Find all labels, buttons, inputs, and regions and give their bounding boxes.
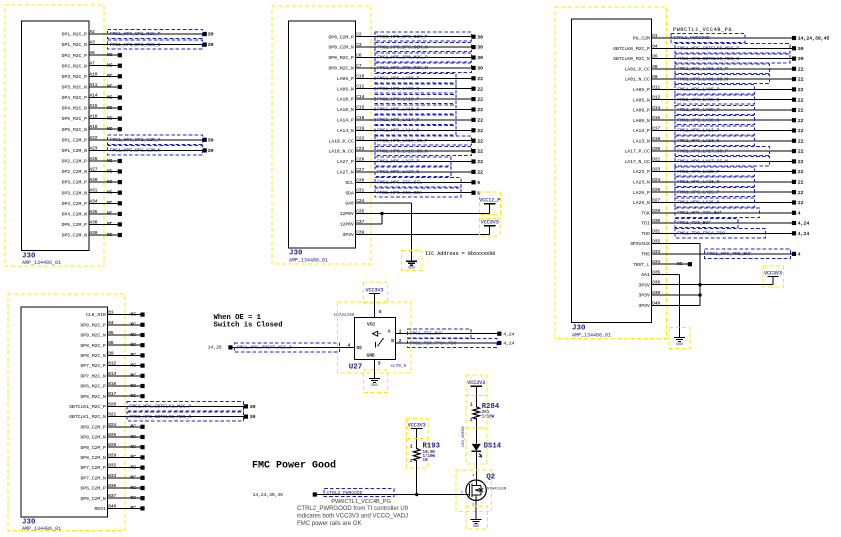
svg-text:AMP_134486_01: AMP_134486_01: [22, 526, 61, 532]
svg-text:5: 5: [379, 309, 382, 315]
svg-text:LA23_P: LA23_P: [633, 169, 650, 175]
svg-text:DP2_M2C_N: DP2_M2C_N: [62, 63, 88, 69]
svg-text:FMC1_HPC_LA05_P: FMC1_HPC_LA05_P: [677, 87, 719, 93]
svg-text:VCC12_P: VCC12_P: [479, 198, 500, 204]
J30-A pin A34 DP4_C2M_P NC: [62, 199, 122, 207]
J30-A pin A27 DP2_C2M_N NC: [62, 168, 122, 176]
J30-D pin D18 LA13_N net FMC1_HPC_LA13_N: [633, 136, 804, 145]
power symbol VCC3V3 (J30-D): [763, 266, 784, 287]
svg-text:22: 22: [798, 159, 804, 165]
svg-text:FMC1_HPC_LA26_P: FMC1_HPC_LA26_P: [677, 189, 719, 195]
svg-text:CTRL2_PWRGOOD: CTRL2_PWRGOOD: [673, 35, 710, 41]
net FMC1_HPC_PRSNT_M2C_B: [235, 343, 340, 352]
svg-text:U27: U27: [349, 364, 363, 372]
svg-text:NC: NC: [107, 211, 113, 217]
power symbol VCC3V3 (U27): [364, 282, 388, 318]
svg-text:J30: J30: [289, 250, 303, 258]
svg-text:4,24: 4,24: [503, 341, 514, 347]
svg-text:LA09_P: LA09_P: [633, 108, 650, 114]
J30-D pin D14 LA09_P net FMC1_HPC_LA09_P: [633, 105, 804, 114]
diode DS14 (LED): [462, 426, 502, 464]
J30-B pin B17 DP6_M2C_N NC: [80, 392, 144, 400]
svg-text:PG_C2M: PG_C2M: [633, 36, 650, 42]
svg-text:FMC1_HPC_LA06_N: FMC1_HPC_LA06_N: [377, 86, 419, 92]
J30-A pin A11 DP3_M2C_N NC: [62, 83, 122, 91]
J30-A pin A3 DP1_M2C_N net FMC1_HPC_DP1_M2C_N: [62, 40, 214, 49]
power symbol VCC3V3 (R193): [406, 418, 428, 449]
svg-text:GND: GND: [371, 384, 377, 388]
svg-text:22: 22: [477, 118, 483, 124]
svg-text:4,24: 4,24: [503, 331, 514, 337]
svg-text:1%: 1%: [423, 459, 429, 463]
svg-text:FMC1_HPC_LA13_P: FMC1_HPC_LA13_P: [677, 128, 719, 134]
svg-text:R284: R284: [482, 403, 500, 411]
svg-text:3P3V: 3P3V: [639, 282, 650, 288]
svg-text:1: 1: [410, 444, 413, 449]
J30-D pin D9 LA01_N_CC net FMC1_HPC_LA01_CC_N: [624, 74, 803, 83]
svg-text:FMC1_HPC_LA13_N: FMC1_HPC_LA13_N: [677, 138, 719, 144]
svg-text:SCL: SCL: [345, 180, 354, 186]
J30-D pin D11 LA05_P net FMC1_HPC_LA05_P: [633, 85, 804, 94]
svg-text:22: 22: [798, 97, 804, 103]
J30-C pin C14 LA10_P net FMC1_HPC_LA10_P: [337, 94, 483, 103]
svg-text:FMC1_TDI_BUF: FMC1_TDI_BUF: [410, 331, 443, 337]
wire U27 pin5 to VCC3V3: [374, 294, 376, 318]
svg-text:FMC1_HPC_LA18_CC_P: FMC1_HPC_LA18_CC_P: [377, 138, 428, 144]
junction C35/C37: [380, 212, 383, 215]
wire U27 B to TDO net: [396, 342, 498, 344]
svg-text:DP8_M2C_P: DP8_M2C_P: [80, 343, 106, 349]
svg-text:NC: NC: [107, 115, 113, 121]
svg-text:LA05_P: LA05_P: [633, 87, 650, 93]
J30-D pin D36 3P3V VCC: [639, 281, 773, 289]
svg-text:FMC1_TDO_FPGA_TDO: FMC1_TDO_FPGA_TDO: [677, 231, 725, 237]
svg-text:CTRL2_PWRGOOD from TI controll: CTRL2_PWRGOOD from TI controller U9: [297, 506, 409, 512]
svg-text:FMC1_HPC_DP1_M2C_P: FMC1_HPC_DP1_M2C_P: [110, 31, 161, 37]
svg-text:DP7_C2M_P: DP7_C2M_P: [80, 465, 106, 471]
J30-D pin D40 3P3V END: [639, 301, 700, 309]
wire CTRL2_PWRGOOD to Q2 gate: [317, 494, 470, 496]
svg-text:LA01_P_CC: LA01_P_CC: [624, 66, 650, 72]
svg-text:22: 22: [798, 169, 804, 175]
J30-D pin D1 PG_C2M net CTRL2_PWRGOOD: [633, 33, 830, 42]
svg-text:NTA4153N: NTA4153N: [487, 488, 507, 492]
svg-text:FMC1_HPC_LA27_P: FMC1_HPC_LA27_P: [377, 159, 419, 165]
svg-text:TCK: TCK: [641, 210, 650, 216]
wire DS14 to Q2 drain: [475, 451, 477, 485]
svg-text:NC: NC: [107, 73, 113, 79]
svg-text:LA14_N: LA14_N: [337, 128, 354, 134]
svg-text:CLK_DIR: CLK_DIR: [86, 312, 106, 318]
svg-text:GA1: GA1: [641, 272, 650, 278]
J30-A pin A6 DP2_M2C_P NC: [62, 51, 122, 59]
svg-text:NC: NC: [131, 434, 137, 440]
J30-D pin D27 LA26_N net FMC1_HPC_LA26_N: [633, 198, 804, 207]
svg-text:30: 30: [250, 414, 256, 420]
svg-text:sc70_5: sc70_5: [390, 364, 406, 369]
J30-B pin B21 GBTCLK1_M2C_N net FMC1_HPC_GBTCLK1_M2C_N: [69, 412, 255, 421]
svg-text:GBTCLK1_M2C_P: GBTCLK1_M2C_P: [69, 404, 106, 410]
svg-text:30: 30: [477, 66, 483, 72]
svg-text:NC: NC: [131, 373, 137, 379]
svg-text:LA01_N_CC: LA01_N_CC: [624, 77, 650, 83]
svg-text:22: 22: [477, 159, 483, 165]
svg-text:VCC3V3: VCC3V3: [467, 380, 485, 386]
svg-text:FMC1_HPC_LA14_N: FMC1_HPC_LA14_N: [377, 128, 419, 134]
svg-text:FMC power rails are OK: FMC power rails are OK: [297, 521, 361, 527]
svg-text:VCC3V3: VCC3V3: [365, 287, 383, 293]
J30-D pin D24 LA23_N net FMC1_HPC_LA23_N: [633, 177, 804, 186]
svg-text:DP5_M2C_N: DP5_M2C_N: [62, 127, 88, 133]
svg-text:FMC1_HPC_GBTCLK0_M2C_P: FMC1_HPC_GBTCLK0_M2C_P: [677, 46, 739, 52]
svg-text:FMC1_HPC_GBTCLK1_M2C_N: FMC1_HPC_GBTCLK1_M2C_N: [129, 414, 191, 420]
J30-C pin C23 LA18_N_CC net FMC1_HPC_LA18_CC_N: [328, 146, 483, 155]
svg-text:LA18_N_CC: LA18_N_CC: [328, 149, 354, 155]
power symbol VCC3V3 (J30-C): [479, 219, 500, 237]
svg-text:22: 22: [798, 190, 804, 196]
J30-D pin D12 LA05_N net FMC1_HPC_LA05_N: [633, 95, 804, 104]
svg-text:DP5_C2M_P: DP5_C2M_P: [62, 222, 88, 228]
svg-text:NC: NC: [131, 475, 137, 481]
J30-D pin D5 GBTCLK0_M2C_N net FMC1_HPC_GBTCLK0_M2C_N: [613, 54, 803, 63]
svg-text:FMC1_HPC_LA17_CC_N: FMC1_HPC_LA17_CC_N: [677, 159, 728, 165]
svg-text:DS14: DS14: [484, 443, 502, 451]
J30-D pin D17 LA13_P net FMC1_HPC_LA13_P: [633, 126, 804, 135]
ground yellow box: [364, 370, 388, 393]
svg-text:DP8_M2C_N: DP8_M2C_N: [80, 353, 106, 359]
svg-text:30: 30: [208, 42, 214, 48]
ground yellow box: [402, 250, 423, 270]
svg-text:FMC1_HPC_LA10_N: FMC1_HPC_LA10_N: [377, 107, 419, 113]
J30-B pin B9 DP8_M2C_N NC: [80, 351, 144, 359]
svg-text:AMP_134486_01: AMP_134486_01: [22, 260, 61, 266]
J30-B pin B29 DP8_C2M_N NC: [80, 453, 144, 461]
svg-text:30: 30: [477, 34, 483, 40]
ground GND (Q2): [471, 520, 482, 529]
svg-text:30: 30: [798, 56, 804, 62]
svg-text:3P3V: 3P3V: [639, 293, 650, 299]
wire GA1 to ground: [679, 274, 681, 337]
op-amp U27 bus switch body: [338, 302, 412, 373]
svg-text:NC: NC: [107, 179, 113, 185]
J30-A pin A35 DP4_C2M_N NC: [62, 210, 122, 218]
svg-text:30: 30: [477, 55, 483, 61]
svg-text:LA13_N: LA13_N: [633, 138, 650, 144]
svg-text:FMC1_HPC_LA17_CC_P: FMC1_HPC_LA17_CC_P: [677, 148, 728, 154]
svg-text:FMC1_HPC_LA18_CC_N: FMC1_HPC_LA18_CC_N: [377, 148, 428, 154]
svg-text:22: 22: [477, 76, 483, 82]
svg-text:GBTCLK0_M2C_N: GBTCLK0_M2C_N: [613, 56, 650, 62]
svg-text:DP4_M2C_N: DP4_M2C_N: [62, 106, 88, 112]
J30-A pin A38 DP5_C2M_P NC: [62, 220, 122, 228]
svg-text:A: A: [388, 328, 391, 334]
svg-text:22: 22: [477, 86, 483, 92]
svg-text:4: 4: [798, 210, 801, 216]
svg-text:NC: NC: [131, 454, 137, 460]
svg-text:FMC1_HPC_GBTCLK1_M2C_P: FMC1_HPC_GBTCLK1_M2C_P: [129, 404, 191, 410]
net CTRL2_PWRGOOD: [324, 489, 394, 497]
svg-text:FMC1_HPC_LA06_P: FMC1_HPC_LA06_P: [377, 76, 419, 82]
wire U27 A to TDI net: [396, 333, 498, 335]
J30-D pin D35 GA1 GND: [641, 270, 679, 278]
svg-text:AMP_134486_01: AMP_134486_01: [289, 258, 328, 264]
svg-text:DP5_M2C_P: DP5_M2C_P: [62, 116, 88, 122]
svg-text:LA14_P: LA14_P: [337, 118, 354, 124]
svg-text:FMC1_HPC_LA10_P: FMC1_HPC_LA10_P: [377, 96, 419, 102]
wire U27 pin3 to ground: [374, 359, 376, 378]
svg-text:22: 22: [477, 170, 483, 176]
svg-text:DP1_M2C_N: DP1_M2C_N: [62, 42, 88, 48]
svg-text:VCC: VCC: [367, 322, 375, 328]
svg-text:22: 22: [798, 118, 804, 124]
svg-text:22: 22: [798, 87, 804, 93]
svg-text:30: 30: [250, 404, 256, 410]
ground yellow box: [669, 328, 690, 349]
J30-C pin C26 LA27_P net FMC1_HPC_LA27_P: [337, 157, 483, 166]
svg-text:NC: NC: [131, 444, 137, 450]
J30-B pin B37 DP6_C2M_N NC: [80, 494, 144, 502]
J30-A pin A18 DP5_M2C_P NC: [62, 115, 122, 123]
svg-text:TMS: TMS: [641, 252, 650, 258]
svg-text:FMC Power Good: FMC Power Good: [252, 459, 336, 471]
wire 3V3 rail vertical (D32-D40): [699, 244, 701, 306]
svg-text:FMC1_HPC_DP1_C2M_N: FMC1_HPC_DP1_C2M_N: [110, 148, 161, 154]
svg-text:DP6_C2M_P: DP6_C2M_P: [80, 486, 106, 492]
resistor R284: [466, 395, 500, 428]
svg-text:LA13_P: LA13_P: [633, 128, 650, 134]
svg-text:30: 30: [208, 32, 214, 38]
svg-text:LA05_N: LA05_N: [633, 97, 650, 103]
svg-text:PWRCTL1_VCC4B_PG: PWRCTL1_VCC4B_PG: [331, 499, 391, 505]
svg-text:DP3_M2C_N: DP3_M2C_N: [62, 85, 88, 91]
J30-B pin B16 DP6_M2C_P NC: [80, 382, 144, 390]
J30-C pin C31 SDA net FMC1_HPC_IIC_SDA: [345, 188, 480, 197]
svg-text:FMC1_HPC_DP1_M2C_N: FMC1_HPC_DP1_M2C_N: [110, 42, 161, 48]
J30-A pin A26 DP2_C2M_P NC: [62, 157, 122, 165]
svg-text:22: 22: [798, 200, 804, 206]
svg-text:J30: J30: [572, 325, 586, 333]
svg-text:NC: NC: [131, 383, 137, 389]
J30-A pin A39 DP5_C2M_N NC: [62, 231, 122, 239]
J30-B pin B20 GBTCLK1_M2C_P net FMC1_HPC_GBTCLK1_M2C_P: [69, 402, 255, 411]
junction R193/gate: [415, 493, 418, 496]
J30-D pin D31 TDO net FMC1_TDO_FPGA_TDO: [641, 229, 809, 238]
svg-text:FMC1_HPC_LA23_N: FMC1_HPC_LA23_N: [677, 179, 719, 185]
svg-text:NC: NC: [131, 505, 137, 511]
svg-text:LA23_N: LA23_N: [633, 180, 650, 186]
J30-C pin C10 LA06_P net FMC1_HPC_LA06_P: [337, 74, 483, 83]
svg-text:NC: NC: [107, 126, 113, 132]
J30-B pin B40 RES1 NC: [95, 504, 145, 512]
svg-text:FMC1_HPC_GBTCLK0_M2C_N: FMC1_HPC_GBTCLK0_M2C_N: [677, 56, 739, 62]
svg-text:6: 6: [477, 180, 480, 186]
svg-text:DP0_C2M_P: DP0_C2M_P: [328, 34, 354, 40]
svg-text:sn74sz66: sn74sz66: [333, 313, 354, 318]
svg-text:GND: GND: [367, 353, 375, 359]
svg-text:DP1_C2M_P: DP1_C2M_P: [62, 137, 88, 143]
svg-text:DP3_C2M_N: DP3_C2M_N: [62, 190, 88, 196]
svg-text:2: 2: [410, 459, 413, 464]
svg-text:22: 22: [798, 180, 804, 186]
svg-text:DP6_M2C_P: DP6_M2C_P: [80, 384, 106, 390]
svg-text:LA17_N_CC: LA17_N_CC: [624, 159, 650, 165]
svg-text:NC: NC: [107, 84, 113, 90]
connector J30 section D (FMC row D pins): [555, 7, 667, 339]
svg-text:FMC1_HPC_IIC_SCL: FMC1_HPC_IIC_SCL: [377, 180, 422, 186]
svg-text:LED_GREEN: LED_GREEN: [462, 426, 466, 447]
svg-text:LA09_N: LA09_N: [633, 118, 650, 124]
svg-text:GA0: GA0: [345, 201, 354, 207]
ground GND (J30-C GA0): [406, 261, 417, 270]
svg-text:NC: NC: [131, 495, 137, 501]
svg-text:4: 4: [798, 252, 801, 258]
svg-text:NC: NC: [131, 311, 137, 317]
J30-B pin B1 CLK_DIR NC: [86, 311, 145, 319]
resistor R193: [406, 438, 440, 468]
svg-text:1: 1: [470, 403, 473, 408]
svg-text:22: 22: [798, 138, 804, 144]
svg-text:AMP_134486_01: AMP_134486_01: [572, 333, 611, 339]
svg-text:VCC3V3: VCC3V3: [764, 270, 782, 276]
svg-text:GND: GND: [676, 343, 682, 347]
power symbol VCC3V3 (R284): [466, 375, 487, 407]
J30-B pin B25 DP9_C2M_N NC: [80, 433, 144, 441]
svg-text:DP6_M2C_N: DP6_M2C_N: [80, 394, 106, 400]
svg-text:TRST_L: TRST_L: [633, 262, 650, 268]
wire PRSNT_M2C to OE: [233, 346, 355, 348]
svg-text:4: 4: [472, 474, 474, 478]
svg-text:DP9_M2C_N: DP9_M2C_N: [80, 333, 106, 339]
svg-text:6: 6: [477, 190, 480, 196]
svg-text:DP2_M2C_P: DP2_M2C_P: [62, 53, 88, 59]
svg-text:FMC1_HPC_PRSNT_M2C_B: FMC1_HPC_PRSNT_M2C_B: [237, 344, 292, 350]
svg-text:DP9_C2M_P: DP9_C2M_P: [80, 424, 106, 430]
svg-text:14,24,39,45: 14,24,39,45: [253, 492, 284, 498]
svg-text:NC: NC: [107, 221, 113, 227]
svg-text:PWRCTL1_VCC4B_PG: PWRCTL1_VCC4B_PG: [673, 27, 732, 33]
svg-text:DP2_C2M_P: DP2_C2M_P: [62, 159, 88, 165]
J30-D pin D23 LA23_P net FMC1_HPC_LA23_P: [633, 167, 804, 176]
svg-text:FMC1_HPC_LA05_N: FMC1_HPC_LA05_N: [677, 97, 719, 103]
svg-text:LA27_P: LA27_P: [337, 159, 354, 165]
svg-text:22: 22: [477, 107, 483, 113]
svg-text:FMC1_HPC_LA09_N: FMC1_HPC_LA09_N: [677, 117, 719, 123]
svg-text:NC: NC: [107, 168, 113, 174]
svg-text:NC: NC: [131, 342, 137, 348]
svg-text:30: 30: [208, 148, 214, 154]
J30-C pin C18 LA14_P net FMC1_HPC_LA14_P: [337, 115, 483, 124]
net FMC1_TDI_BUF: [407, 329, 471, 338]
svg-text:TDO: TDO: [641, 231, 650, 237]
J30-C pin C39 3P3V: [343, 230, 490, 238]
svg-text:DP2_C2M_N: DP2_C2M_N: [62, 169, 88, 175]
svg-text:22: 22: [477, 149, 483, 155]
svg-text:FMC1_TDO_FPGA_TDO: FMC1_TDO_FPGA_TDO: [410, 340, 457, 346]
power symbol VCC12_P: [479, 192, 500, 215]
svg-text:CTRL2_PWRGOOD: CTRL2_PWRGOOD: [327, 490, 363, 496]
svg-text:R193: R193: [423, 443, 441, 451]
svg-text:FMC1_HPC_LA01_CC_N: FMC1_HPC_LA01_CC_N: [677, 76, 728, 82]
svg-text:FMC1_HPC_TMS_BUF: FMC1_HPC_TMS_BUF: [707, 251, 752, 257]
svg-text:NC: NC: [107, 190, 113, 196]
svg-text:NC: NC: [107, 200, 113, 206]
svg-text:IIC Address = 0bxxxxx00: IIC Address = 0bxxxxx00: [425, 251, 495, 257]
J30-C pin C15 LA10_N net FMC1_HPC_LA10_N: [337, 105, 483, 114]
connector J30 section C (FMC row C pins): [272, 6, 371, 264]
svg-text:DP7_M2C_P: DP7_M2C_P: [80, 363, 106, 369]
svg-text:FMC1_HPC_DP0_C2M_P: FMC1_HPC_DP0_C2M_P: [377, 34, 428, 40]
svg-text:4,24: 4,24: [798, 231, 810, 237]
J30-C pin C35 12P0V: [340, 210, 490, 218]
ground GND (J30-D GA1): [674, 338, 685, 347]
svg-text:LA10_N: LA10_N: [337, 107, 354, 113]
J30-C pin C22 LA18_P_CC net FMC1_HPC_LA18_CC_P: [328, 136, 483, 145]
svg-text:DP0_C2M_N: DP0_C2M_N: [328, 45, 354, 51]
svg-text:OE: OE: [357, 345, 363, 351]
J30-D pin D26 LA26_P net FMC1_HPC_LA26_P: [633, 188, 804, 197]
svg-text:22: 22: [798, 66, 804, 72]
svg-text:FMC1_HPC_DP0_M2C_N: FMC1_HPC_DP0_M2C_N: [377, 65, 428, 71]
svg-text:DP7_M2C_N: DP7_M2C_N: [80, 373, 106, 379]
svg-text:DP3_C2M_P: DP3_C2M_P: [62, 180, 88, 186]
svg-text:TDI: TDI: [641, 221, 650, 227]
svg-text:indicates both VCC3V3 and VCCO: indicates both VCC3V3 and VCCO_VADJ: [297, 513, 408, 519]
J30-B pin B28 DP8_C2M_P NC: [80, 443, 144, 451]
svg-text:NC: NC: [107, 105, 113, 111]
svg-text:LA06_P: LA06_P: [337, 76, 354, 82]
svg-text:DP0_M2C_N: DP0_M2C_N: [328, 66, 354, 72]
svg-text:LA17_P_CC: LA17_P_CC: [624, 149, 650, 155]
J30-D pin D30 TDI net FMC1_TDI_BUF: [641, 218, 809, 227]
svg-text:DP6_C2M_N: DP6_C2M_N: [80, 496, 106, 502]
svg-text:FMC1_HPC_LA14_P: FMC1_HPC_LA14_P: [377, 117, 419, 123]
svg-text:NC: NC: [131, 362, 137, 368]
J30-C pin C37 12P0V: [340, 214, 382, 228]
svg-text:DP4_C2M_P: DP4_C2M_P: [62, 201, 88, 207]
ground GND (U27): [369, 379, 380, 388]
J30-B pin B24 DP9_C2M_P NC: [80, 423, 144, 431]
svg-text:DP8_C2M_P: DP8_C2M_P: [80, 445, 106, 451]
J30-A pin A30 DP3_C2M_P NC: [62, 178, 122, 186]
J30-D pin D21 LA17_N_CC net FMC1_HPC_LA17_CC_N: [624, 157, 803, 166]
svg-text:NC: NC: [107, 232, 113, 238]
J30-D pin D8 LA01_P_CC net FMC1_HPC_LA01_CC_P: [624, 64, 803, 73]
J30-D pin D4 GBTCLK0_M2C_P net FMC1_HPC_GBTCLK0_M2C_P: [613, 44, 803, 53]
J30-A pin A31 DP3_C2M_N NC: [62, 189, 122, 197]
svg-text:2: 2: [470, 418, 473, 423]
svg-text:DP4_M2C_P: DP4_M2C_P: [62, 95, 88, 101]
J30-C pin C3 DP0_C2M_N net FMC1_HPC_DP0_C2M_N: [328, 42, 483, 51]
J30-C pin C6 DP0_M2C_P net FMC1_HPC_DP0_M2C_P: [328, 53, 483, 62]
svg-text:FMC1_HPC_DP0_M2C_P: FMC1_HPC_DP0_M2C_P: [377, 55, 428, 61]
svg-text:DP9_M2C_P: DP9_M2C_P: [80, 322, 106, 328]
J30-A pin A19 DP5_M2C_N NC: [62, 125, 122, 133]
connector J30 section A (FMC row A pins): [5, 5, 104, 266]
svg-text:FMC1_HPC_LA23_P: FMC1_HPC_LA23_P: [677, 169, 719, 175]
svg-text:SDA: SDA: [345, 190, 354, 196]
junction D36: [698, 283, 701, 286]
svg-text:NC: NC: [131, 332, 137, 338]
connector J30 section B (FMC row B pins): [8, 294, 125, 532]
J30-B pin B12 DP7_M2C_P NC: [80, 362, 144, 370]
svg-text:14,24,39,45: 14,24,39,45: [798, 36, 830, 42]
svg-text:NC: NC: [131, 424, 137, 430]
svg-text:FMC1_HPC_LA09_P: FMC1_HPC_LA09_P: [677, 107, 719, 113]
svg-text:22: 22: [798, 128, 804, 134]
svg-text:3P3V: 3P3V: [639, 303, 650, 309]
wire Q2 source to ground: [475, 495, 477, 520]
J30-D pin D32 3P3VAUX RAIL: [630, 240, 700, 248]
